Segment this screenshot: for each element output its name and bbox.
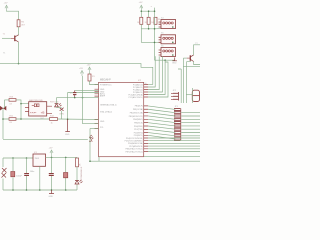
wire PB2 [148,113,175,116]
wire switch row [90,128,99,130]
svg-text:+5V: +5V [139,2,143,4]
junction node [154,42,156,44]
wire to rail [76,185,78,191]
svg-text:R1: R1 [92,76,95,78]
bottom rail [3,189,77,191]
AVCC wire [75,89,99,91]
svg-text:PD5(T1/OC0B/MISO): PD5(T1/OC0B/MISO) [125,141,144,143]
wire PD6 row [148,142,200,144]
svg-text:MAX232ECWE: MAX232ECWE [29,99,43,102]
wire PB3 [148,116,175,119]
wire XTAL row 2 [148,151,200,153]
svg-text:C7: C7 [70,93,73,95]
wire from switch down to bus and up [89,129,91,162]
svg-text:PC5(ADC5/SCL): PC5(ADC5/SCL) [129,96,144,99]
wire PB5 [148,123,175,126]
svg-text:+5V: +5V [4,3,8,5]
wire A3 [148,56,162,92]
wire row into IC [58,118,99,120]
power jack X1 (figure 8 symbol) [192,90,199,101]
capacitor C6 [49,157,54,190]
svg-text:PD4(XCK/T0/MOSI): PD4(XCK/T0/MOSI) [126,138,143,140]
svg-text:X6: X6 [161,45,164,47]
ground symbol power [49,190,54,194]
emitter wire down to bus [18,42,20,64]
junction node [154,10,156,12]
wires around R2 [5,100,29,104]
svg-text:POWER/BLUE: POWER/BLUE [81,166,83,180]
LED D3 [55,103,62,107]
wire PB0 [148,106,175,110]
svg-text:JP2: JP2 [173,90,177,92]
wire PD3 [148,135,175,139]
top rail [3,157,33,159]
long horizontal bus wire [0,64,153,85]
resistor RA vertical [140,17,143,24]
junction node on AREF row [82,97,84,99]
wire +5 branch down to IC [83,76,99,124]
resistor RB vertical [147,17,150,24]
connector box SV2 [159,35,176,44]
wires below cluster [141,24,154,42]
wire from bowtie [3,100,5,139]
vertical feed wire from top edge [155,8,175,61]
svg-text:PD7(AIN1/SCK): PD7(AIN1/SCK) [129,145,143,148]
QG1 left pins [25,108,29,112]
svg-text:X4: X4 [161,17,164,19]
wire [7,11,19,20]
resistor R1 reset pullup [88,74,91,81]
ground symbol GND [65,119,70,131]
junction node [141,10,143,12]
IC right pins lower [144,133,148,152]
svg-text:PD0(RXD): PD0(RXD) [134,126,143,128]
svg-text:PB3(MOSI/OC2): PB3(MOSI/OC2) [129,116,143,118]
serial wires to right edge [183,62,200,67]
supply symbol +5V (x=82) [80,71,83,77]
QG1 right pins [47,106,52,114]
resistor RC vertical [154,17,157,24]
capacitor C3 electrolytic [64,157,68,190]
junction node [154,28,156,30]
wire PD1 [148,129,175,132]
IC left pin labels [100,84,117,129]
LED D4 cross [60,108,64,111]
svg-text:+B: +B [41,111,45,115]
svg-text:MEGA8-P: MEGA8-P [100,78,111,81]
wire PB1 [148,109,175,112]
supply symbol +5V above rail [50,150,53,157]
pin header JP1 (vertical ladder) [174,108,181,140]
svg-text:R6: R6 [21,22,24,24]
svg-text:PB2(SS/OC1B): PB2(SS/OC1B) [130,112,143,114]
wire from R1 to IC pin [90,73,99,85]
svg-text:PCL: PCL [100,127,104,129]
T2 emitter wire [194,62,200,65]
junction node [148,10,150,12]
wire top [141,11,154,18]
wire PD4 row [148,137,200,139]
svg-text:PB0(ICP): PB0(ICP) [135,106,143,108]
svg-text:03: 03 [10,122,13,124]
IC right pin labels [125,83,144,153]
T2 collector wire [194,45,200,55]
wire row AGND into IC with ground drop [67,93,69,120]
svg-text:PD3(INT1): PD3(INT1) [134,135,143,137]
wire A0 [148,84,153,86]
svg-text:1K: 1K [80,163,82,166]
wires from header to right edge [181,113,200,136]
junction node [164,59,166,61]
resistor R2 top [9,99,16,102]
svg-text:100n: 100n [30,171,34,173]
IC right pins upper [144,85,148,98]
svg-text:GND: GND [65,134,70,136]
GND stub from IC bottom [98,157,100,162]
connector box SV3 [159,48,176,57]
wire PD0 [148,126,175,129]
wire A5 [148,62,168,97]
IC box [99,82,144,156]
wire [18,27,20,35]
capacitor C4 electrolytic [11,158,15,190]
wire A1 [148,56,155,87]
wire A2 [148,56,159,89]
svg-text:+5V: +5V [79,68,83,70]
svg-text:GND: GND [100,121,105,123]
svg-text:PB6(XTAL1/TOSC1): PB6(XTAL1/TOSC1) [126,148,144,151]
inner marks of QG1 [32,104,39,107]
svg-text:4K7: 4K7 [21,25,25,27]
connector box SV1 [159,20,176,29]
reset switch S1 [90,135,94,142]
svg-text:03: 03 [10,104,13,106]
svg-text:GND: GND [172,63,177,65]
svg-text:PD1(TXD): PD1(TXD) [134,129,143,131]
svg-text:IC2: IC2 [138,80,142,82]
svg-text:XTAL (XTAL2): XTAL (XTAL2) [100,110,112,113]
svg-text:1k: 1k [51,122,53,124]
wire PD5 row [148,140,200,142]
svg-text:T1: T1 [3,34,6,36]
transistor Q1 PNP [15,35,19,42]
resistor R3 lower [9,118,16,121]
long reset wire [3,139,88,141]
wire A4 [148,60,165,94]
svg-text:GND: GND [49,196,54,198]
svg-text:PB1(OC1A): PB1(OC1A) [133,108,143,111]
T2 base wire [183,57,187,59]
wires feeding header area [178,58,193,103]
junction node [148,28,150,30]
svg-text:PB5(SCK): PB5(SCK) [134,123,143,125]
LED power [75,180,83,184]
wires LED chain [57,98,62,119]
svg-text:T1: T1 [3,53,6,55]
resistor R11 power led [76,158,79,167]
svg-text:PD2(INT0): PD2(INT0) [134,132,143,134]
svg-text:PB4(MISO): PB4(MISO) [133,119,143,121]
svg-text:R6: R6 [158,19,160,21]
resistor R14 [50,118,58,121]
base wire [2,37,11,39]
diode D1 input [2,168,7,178]
svg-text:a: a [151,6,153,8]
svg-text:JP1: JP1 [175,106,179,108]
regulator IC1 box [33,154,46,166]
connector X2 bowtie at left edge [0,106,6,111]
capacitor C5 [24,158,29,190]
resistor R top-left [17,20,20,27]
wires diode branch [2,158,4,190]
svg-text:PD6(AIN0/OC0A): PD6(AIN0/OC0A) [128,142,143,145]
wire PB4 [148,119,175,122]
wire PD7 row [148,145,200,147]
svg-text:X5: X5 [161,33,164,35]
supply symbol +5V (x=89.5) [88,67,91,73]
IC left pins [95,85,99,129]
ground symbol below boxes [172,58,177,61]
svg-text:PB7(XTAL2/TOSC2): PB7(XTAL2/TOSC2) [126,150,144,153]
3-pin header JP2 [171,92,179,101]
svg-text:POWER/VCC: POWER/VCC [100,84,112,86]
transistor T2 [190,55,193,62]
+5V rail out of regulator [46,156,78,158]
svg-text:100uF: 100uF [16,176,22,178]
wire XTAL row [148,148,200,150]
supply symbol +5V top-left [5,5,8,10]
bus below IC [90,160,201,162]
node junction on bus [18,63,20,65]
wire row AREF into IC [57,97,99,99]
capacitor C7 [73,90,76,97]
regulator ground pin [39,166,41,190]
wires around R3 [3,104,50,119]
svg-text:GENERAL (XTAL1): GENERAL (XTAL1) [100,104,117,107]
wire PD2 [148,133,175,136]
AGND wire [68,92,99,94]
svg-text:+5V: +5V [87,65,91,67]
svg-text:RST LED: RST LED [50,101,59,103]
svg-text:AREF: AREF [100,95,106,98]
svg-text:×××•: ×××• [30,111,37,115]
wire [76,157,78,180]
svg-text:+5V: +5V [49,148,53,150]
wire from IC bottom corner to right edge [144,156,200,158]
supply symbol +5V [140,5,143,10]
IC right pins middle [144,106,148,129]
